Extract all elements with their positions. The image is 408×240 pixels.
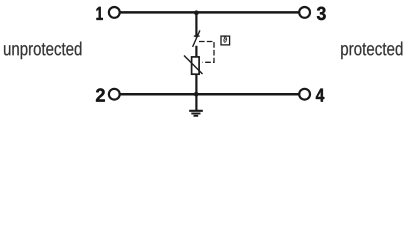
dashed thermal coupling link <box>199 42 214 63</box>
ground symbol <box>189 111 203 116</box>
label 1 <box>96 7 102 20</box>
wire: upper vertical segment from top wire to disconnect <box>195 12 197 37</box>
thermal disconnect switch tick <box>194 35 200 37</box>
terminal circle 1 (top left) <box>109 7 120 18</box>
label 3 <box>317 7 326 20</box>
theta symbol in indicator box <box>223 37 227 43</box>
junction node on bottom wire <box>194 92 199 97</box>
junction node on top wire <box>194 10 199 15</box>
wire: bottom horizontal (terminal 2 to terminal 4) <box>120 93 298 96</box>
wire: segment from varistor to bottom wire and ground <box>195 74 197 110</box>
wire: segment from disconnect to varistor <box>195 46 197 57</box>
status indicator box <box>221 36 230 45</box>
varistor diagonal stroke <box>184 56 203 75</box>
label 2 <box>96 88 105 101</box>
terminal circle 2 (bottom left) <box>109 89 120 100</box>
thermal disconnect switch blade <box>193 30 200 47</box>
wire: top horizontal (terminal 1 to terminal 3) <box>120 11 298 14</box>
label 4 <box>316 89 324 102</box>
text label: unprotected side <box>4 42 81 59</box>
text label: protected side <box>341 42 402 59</box>
terminal circle 3 (top right) <box>299 7 310 18</box>
varistor body RV <box>192 57 200 74</box>
terminal circle 4 (bottom right) <box>299 89 310 100</box>
